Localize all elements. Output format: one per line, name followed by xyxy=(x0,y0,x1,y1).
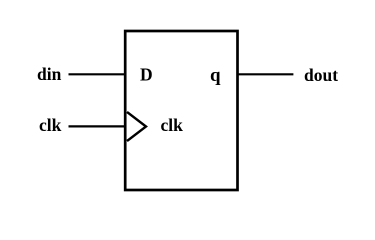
svg-text:din: din xyxy=(37,64,62,84)
flip-flop body U1 xyxy=(125,31,237,190)
wire clk input xyxy=(69,125,126,127)
wire din input xyxy=(69,73,126,75)
svg-text:q: q xyxy=(210,65,221,86)
svg-text:dout: dout xyxy=(304,65,338,85)
svg-text:clk: clk xyxy=(161,115,184,135)
clock edge triangle xyxy=(127,112,146,141)
wire dout output xyxy=(238,73,294,75)
svg-text:clk: clk xyxy=(39,115,62,135)
svg-text:D: D xyxy=(140,65,153,85)
